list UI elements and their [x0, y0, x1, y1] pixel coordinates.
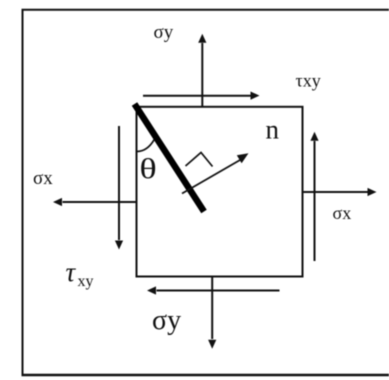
- svg-text:σy: σy: [154, 22, 174, 43]
- frame top border: [22, 9, 389, 11]
- svg-text:n: n: [266, 114, 280, 144]
- svg-text:τxy: τxy: [296, 71, 321, 91]
- svg-text:σy: σy: [152, 305, 181, 336]
- tau-xy top arrow (rightward): [143, 92, 260, 100]
- svg-text:xy: xy: [78, 273, 94, 290]
- svg-text:τ: τ: [66, 257, 77, 287]
- svg-text:σx: σx: [33, 168, 53, 189]
- sigma-x right arrow (rightward): [303, 188, 377, 196]
- normal vector n arrow: [182, 153, 249, 193]
- frame bottom border: [22, 374, 389, 377]
- tau-xy bottom arrow (leftward): [147, 286, 280, 294]
- tau-xy right-face arrow (upward): [310, 132, 318, 261]
- stress element square: [137, 107, 303, 277]
- right-angle mark: [186, 153, 213, 167]
- theta angle arc: [137, 140, 154, 152]
- tau-xy left-face arrow (downward): [115, 126, 123, 250]
- sigma-x left arrow (leftward): [53, 198, 137, 206]
- sigma-y bottom arrow (downward): [208, 277, 216, 349]
- inclined plane (thick diagonal bar): [135, 104, 205, 212]
- svg-text:θ: θ: [140, 153, 157, 184]
- sigma-y top arrow (upward): [198, 34, 206, 107]
- svg-text:σx: σx: [333, 203, 352, 223]
- frame left border: [22, 9, 24, 376]
